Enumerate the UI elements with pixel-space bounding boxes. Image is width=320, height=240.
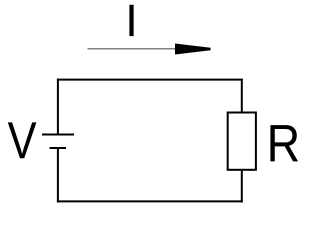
wire left lower (battery to bottom-left corner) bbox=[57, 148, 59, 202]
wire left upper (top-left corner to battery) bbox=[57, 79, 59, 135]
label I (current) bbox=[129, 5, 133, 36]
current arrow I head bbox=[175, 44, 211, 55]
current arrow I shaft bbox=[88, 48, 179, 50]
label V bbox=[8, 122, 37, 158]
voltage source V: positive plate bbox=[42, 134, 74, 136]
label R bbox=[270, 125, 298, 161]
wire bottom bbox=[57, 200, 243, 202]
wire top bbox=[57, 79, 243, 81]
voltage source V: negative plate bbox=[50, 147, 67, 149]
resistor R body bbox=[228, 113, 256, 170]
wire right lower (resistor to bottom-right corner) bbox=[241, 171, 243, 203]
wire right upper (top-right corner to resistor) bbox=[241, 79, 243, 113]
